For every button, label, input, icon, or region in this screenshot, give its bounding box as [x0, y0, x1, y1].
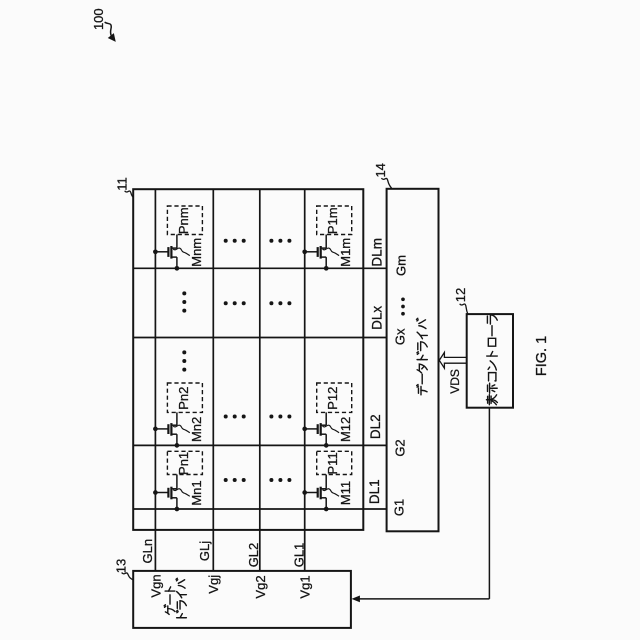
svg-text:FIG. 1: FIG. 1	[534, 336, 550, 376]
svg-text:DL2: DL2	[368, 414, 383, 439]
svg-text:G1: G1	[392, 499, 407, 516]
svg-text:GL2: GL2	[246, 543, 261, 568]
svg-text:M11: M11	[338, 481, 353, 505]
svg-text:Pnm: Pnm	[176, 207, 191, 234]
svg-text:Gm: Gm	[394, 255, 409, 276]
svg-text:G2: G2	[392, 439, 407, 456]
svg-text:Gx: Gx	[393, 328, 408, 345]
svg-text:VDS: VDS	[448, 369, 462, 394]
svg-text:12: 12	[453, 288, 468, 302]
svg-text:Vgn: Vgn	[148, 574, 163, 597]
svg-text:Pn2: Pn2	[176, 387, 191, 410]
svg-text:100: 100	[91, 8, 106, 30]
svg-text:14: 14	[373, 163, 388, 177]
svg-text:Vg2: Vg2	[253, 575, 268, 598]
svg-text:GL1: GL1	[292, 543, 307, 568]
svg-text:DLx: DLx	[369, 306, 384, 330]
svg-text:M1m: M1m	[338, 238, 353, 267]
svg-text:13: 13	[114, 559, 129, 573]
svg-text:Mn1: Mn1	[189, 480, 204, 505]
svg-text:P11: P11	[325, 452, 340, 474]
svg-text:Mnm: Mnm	[189, 238, 204, 267]
svg-text:Mn2: Mn2	[189, 417, 204, 442]
svg-text:Vgj: Vgj	[206, 575, 221, 594]
svg-text:11: 11	[115, 177, 130, 191]
svg-text:DL1: DL1	[367, 479, 382, 504]
svg-text:P12: P12	[325, 387, 340, 410]
svg-text:GLj: GLj	[197, 541, 212, 561]
svg-text:GLn: GLn	[140, 539, 155, 564]
svg-text:DLm: DLm	[369, 238, 384, 267]
svg-text:P1m: P1m	[325, 207, 340, 234]
svg-text:M12: M12	[338, 417, 353, 442]
svg-text:Vg1: Vg1	[298, 575, 313, 598]
svg-text:Pn1: Pn1	[176, 452, 191, 475]
